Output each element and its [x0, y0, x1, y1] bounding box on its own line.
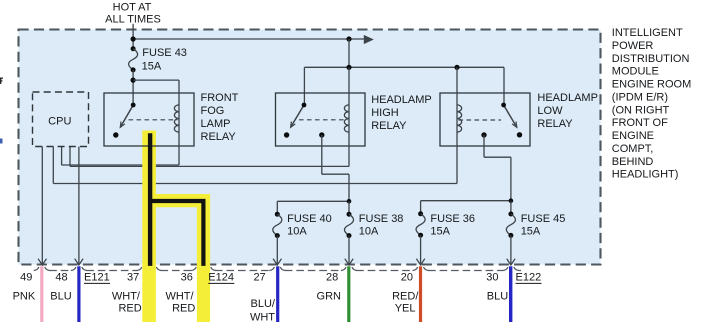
svg-text:E122: E122	[516, 272, 542, 284]
svg-text:RELAY: RELAY	[537, 118, 573, 130]
low relay link (dashed)	[459, 119, 502, 121]
svg-text:RED: RED	[172, 303, 195, 315]
svg-text:ENGINE: ENGINE	[612, 130, 654, 142]
svg-text:FUSE 38: FUSE 38	[359, 213, 404, 225]
wire: fuse feed bus A (fuses 40, 38)	[277, 200, 349, 202]
CPU box (dashed)	[33, 92, 89, 147]
FUSE 38 10A	[348, 201, 350, 214]
svg-text:FOG: FOG	[201, 105, 225, 117]
headlamp high relay box	[276, 93, 366, 146]
svg-text:FUSE 45: FUSE 45	[521, 213, 566, 225]
svg-text:49: 49	[20, 272, 32, 284]
node: fuse 43 / bus junction	[131, 36, 136, 41]
svg-text:WHT: WHT	[250, 311, 275, 322]
svg-text:COMPT,: COMPT,	[612, 143, 654, 155]
node: fuse 45 junction	[509, 198, 514, 203]
svg-text:WHT/: WHT/	[112, 291, 141, 303]
svg-text:(IPDM E/R): (IPDM E/R)	[612, 91, 668, 103]
svg-text:36: 36	[181, 272, 193, 284]
wire 28 GRN	[347, 266, 350, 322]
svg-text:15A: 15A	[521, 225, 541, 237]
svg-text:FRONT OF: FRONT OF	[612, 117, 668, 129]
svg-text:RELAY: RELAY	[371, 120, 407, 132]
wire: fuse 43 output to fog relay	[132, 70, 134, 105]
low relay switch output pin	[481, 132, 486, 137]
IPDM E/R module box (dashed, light blue fill)	[19, 30, 601, 265]
svg-text:20: 20	[401, 272, 413, 284]
svg-text:WHT/: WHT/	[165, 291, 194, 303]
FUSE 40 10A	[276, 201, 278, 214]
svg-text:E124: E124	[208, 272, 234, 284]
svg-text:30: 30	[486, 272, 498, 284]
svg-text:HEADLAMP: HEADLAMP	[371, 94, 432, 106]
wire: CPU to headlamp low relay coil	[52, 147, 54, 184]
svg-text:MODULE: MODULE	[612, 66, 659, 78]
svg-text:HEADLAMP: HEADLAMP	[537, 92, 598, 104]
fog relay switch	[120, 105, 133, 127]
wire 20 RED/YEL	[419, 266, 422, 322]
wire: to high relay switch	[303, 67, 305, 105]
svg-text:HEADLIGHT): HEADLIGHT)	[612, 169, 679, 181]
svg-text:POWER: POWER	[612, 40, 654, 52]
high relay switch	[291, 105, 304, 127]
highlighted wire 36 WHT/RED (yellow branch)	[149, 201, 203, 322]
headlamp low relay box	[440, 93, 530, 146]
wire: power bus to other page (arrow right)	[133, 38, 371, 40]
svg-text:15A: 15A	[142, 60, 162, 72]
highlighted wire 37 WHT/RED (yellow)	[142, 131, 156, 322]
cropped text fragment at left edge	[0, 78, 1, 84]
wire 49 PNK	[40, 266, 43, 322]
svg-text:FUSE 40: FUSE 40	[287, 213, 332, 225]
svg-text:RELAY: RELAY	[201, 131, 237, 143]
svg-text:HIGH: HIGH	[371, 107, 399, 119]
svg-text:BEHIND: BEHIND	[612, 156, 654, 168]
svg-text:BLU: BLU	[487, 291, 508, 303]
svg-text:ENGINE ROOM: ENGINE ROOM	[612, 79, 691, 91]
svg-text:INTELLIGENT: INTELLIGENT	[612, 27, 683, 39]
svg-text:15A: 15A	[430, 225, 450, 237]
high relay switch output pin	[319, 132, 324, 137]
svg-text:GRN: GRN	[317, 291, 342, 303]
cropped blue mark at left edge	[0, 139, 3, 144]
svg-text:LOW: LOW	[537, 105, 563, 117]
svg-text:HOT AT: HOT AT	[113, 2, 152, 14]
svg-text:YEL: YEL	[395, 303, 416, 315]
wire 48 BLU	[77, 266, 80, 322]
low relay coil	[456, 67, 458, 183]
svg-text:FUSE 43: FUSE 43	[142, 47, 187, 59]
svg-text:27: 27	[253, 272, 265, 284]
fuse 43 15A	[131, 46, 136, 51]
wire: CPU to front fog relay coil	[61, 147, 63, 166]
fog relay link (dashed)	[129, 119, 178, 121]
wire: fuse feed bus B (fuses 36, 45)	[421, 200, 511, 202]
node: fog relay coil branch	[131, 78, 136, 83]
svg-text:37: 37	[127, 272, 139, 284]
black core of wire 37 (WHT/RED)	[148, 133, 152, 266]
svg-text:RED: RED	[118, 303, 141, 315]
front fog lamp relay box	[104, 93, 194, 146]
svg-text:28: 28	[326, 272, 338, 284]
wire: CPU to headlamp high relay coil	[69, 147, 71, 167]
connector collar line (bottom, dashed with hooks at wires)	[49, 270, 71, 272]
svg-text:FRONT: FRONT	[201, 92, 239, 104]
node: fuse 38 junction	[347, 199, 352, 204]
svg-text:E121: E121	[84, 272, 110, 284]
wire 30 BLU	[509, 266, 512, 322]
high relay coil	[348, 67, 350, 166]
wire: battery feed down from HOT AT ALL TIMES	[132, 24, 134, 49]
wire: CPU pin to connector 48	[78, 147, 80, 264]
svg-text:CPU: CPU	[48, 116, 71, 128]
low relay switch (mirrored)	[504, 105, 517, 127]
FUSE 45 15A	[510, 201, 512, 214]
svg-text:DISTRIBUTION: DISTRIBUTION	[612, 53, 690, 65]
svg-text:(ON RIGHT: (ON RIGHT	[612, 104, 670, 116]
high relay link (dashed)	[299, 119, 348, 121]
black core of wire 36 (WHT/RED)	[152, 201, 203, 266]
svg-text:10A: 10A	[287, 225, 307, 237]
node: headlamp high coil junction	[346, 65, 351, 70]
wire: feed to headlamp relays	[348, 39, 350, 67]
wire: to low relay switch	[503, 67, 505, 105]
svg-text:LAMP: LAMP	[201, 118, 231, 130]
FUSE 36 15A	[420, 201, 422, 214]
svg-text:BLU/: BLU/	[251, 298, 276, 310]
wire: CPU pin to connector 49	[41, 147, 43, 264]
node: headlamp relay feed junction	[346, 36, 351, 41]
svg-text:BLU: BLU	[50, 291, 71, 303]
svg-text:RED/: RED/	[392, 291, 419, 303]
wire: branch to fog relay coil	[133, 79, 179, 81]
svg-text:10A: 10A	[359, 225, 379, 237]
wire 27 BLU/WHT	[276, 266, 279, 322]
node: headlamp low coil junction	[454, 65, 459, 70]
svg-text:PNK: PNK	[13, 291, 36, 303]
fog relay coil	[178, 80, 180, 165]
svg-text:FUSE 36: FUSE 36	[430, 213, 475, 225]
svg-text:48: 48	[55, 272, 67, 284]
